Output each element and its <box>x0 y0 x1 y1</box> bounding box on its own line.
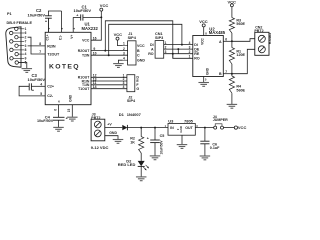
J2 net labels <box>136 76 139 91</box>
wire R1 to node B <box>231 64 233 74</box>
U1 pin 2 V+ <box>70 17 76 38</box>
LED D2 labels <box>118 158 136 167</box>
node T2IN junction <box>108 54 110 56</box>
svg-text:C1-: C1- <box>58 35 62 40</box>
ground at C5 <box>150 156 161 160</box>
connector J3 PBT2 labels <box>91 112 100 120</box>
svg-text:2: 2 <box>165 45 167 49</box>
svg-text:7805: 7805 <box>184 118 194 123</box>
U1 pin 12 R1OUT <box>78 74 97 80</box>
ground at U3 <box>177 145 188 149</box>
CN1 pin1 wire to U2 DI <box>164 41 193 45</box>
U3 IN label <box>165 125 175 130</box>
svg-text:10uF/50V: 10uF/50V <box>28 77 46 82</box>
ground at P1 pin5 <box>22 69 33 73</box>
wire U1 pin12 to J2 <box>91 74 127 78</box>
node A <box>231 40 233 42</box>
capacitor C1 <box>76 14 83 21</box>
capacitor C3 labels <box>28 73 46 82</box>
J1 pin3 <box>123 51 125 55</box>
J3 GND wire <box>105 131 118 139</box>
wire node A to CN2 pin1 <box>232 39 255 42</box>
svg-text:2: 2 <box>123 47 125 51</box>
wire R2 to D2 <box>140 153 142 161</box>
node B <box>231 73 233 75</box>
U2 pin5 GND <box>204 67 210 82</box>
connector CN1 body <box>155 41 164 59</box>
wire C5 to ground <box>154 143 156 156</box>
U1 pin 10 T2IN <box>82 51 97 57</box>
capacitor C1 labels <box>74 4 92 13</box>
U2 labels <box>209 26 226 35</box>
capacitor C3 <box>29 83 34 92</box>
CN2 RS485 label <box>268 33 272 44</box>
svg-text:3: 3 <box>189 45 191 49</box>
svg-text:9-12 VDC: 9-12 VDC <box>91 145 109 150</box>
svg-text:10uF/50V: 10uF/50V <box>74 8 92 13</box>
node RO junction <box>172 53 174 55</box>
jumper J4 <box>214 124 224 129</box>
svg-text:SIP4: SIP4 <box>127 99 136 103</box>
ground at J1 pin4 <box>113 64 124 68</box>
svg-text:IN: IN <box>170 126 174 130</box>
svg-text:A: A <box>151 47 154 51</box>
svg-text:VCC: VCC <box>114 32 123 37</box>
svg-text:+: + <box>32 88 34 92</box>
svg-text:8: 8 <box>39 42 41 46</box>
ground at U2 pin5 <box>198 83 209 87</box>
svg-text:GND: GND <box>69 94 73 102</box>
wire C3 right to U1 pin4 <box>31 85 45 87</box>
svg-text:SIP4: SIP4 <box>128 36 137 40</box>
svg-text:10uF/50V: 10uF/50V <box>37 119 54 123</box>
svg-text:C5: C5 <box>160 134 165 138</box>
svg-text:120E: 120E <box>236 53 245 57</box>
U1 pin 5 C2- label <box>40 92 54 98</box>
svg-text:9: 9 <box>93 47 95 51</box>
svg-text:3: 3 <box>165 50 167 54</box>
LED D2 <box>138 161 149 171</box>
svg-text:4: 4 <box>123 85 125 89</box>
U3 OUT label <box>185 125 198 130</box>
U1 pin 7 T2OUT label <box>39 50 60 56</box>
connector J1 body <box>128 41 136 65</box>
svg-text:C1+: C1+ <box>45 34 49 40</box>
svg-text:DB-9 FEMALE: DB-9 FEMALE <box>7 21 33 25</box>
svg-text:MAX232: MAX232 <box>82 26 99 31</box>
svg-text:1: 1 <box>189 55 191 59</box>
resistor R1 120E <box>229 41 245 64</box>
svg-text:U3: U3 <box>168 118 174 123</box>
wire U3 OUT to rail <box>195 127 213 129</box>
capacitor C4 labels <box>37 115 54 123</box>
wire to U2 RO <box>173 54 193 59</box>
wire U1 pin13 to J2 <box>91 77 127 81</box>
J3 +V wire <box>105 122 123 127</box>
power VCC above U2 <box>199 19 208 36</box>
power VCC above R3 <box>228 0 237 18</box>
ground at C4 <box>53 127 64 131</box>
svg-text:KOTEQ: KOTEQ <box>49 64 80 71</box>
U1 labels <box>82 22 99 31</box>
wire rail D1 to U3 IN <box>127 127 168 129</box>
svg-text:VCC: VCC <box>137 44 145 48</box>
connector J3 body <box>91 119 105 141</box>
connector CN1 SIP3 labels <box>155 32 163 40</box>
connector CN2 PBT2 labels <box>254 25 263 33</box>
svg-text:1K: 1K <box>130 140 135 144</box>
power VCC at J4 <box>234 125 246 130</box>
svg-text:VCC: VCC <box>201 37 205 44</box>
connector J2 labels <box>127 96 136 103</box>
node VCC junction <box>100 16 102 18</box>
wire U1 pin11 to J2 <box>91 81 127 85</box>
J1 pin1 <box>123 42 128 46</box>
U2 pin B <box>219 70 232 76</box>
svg-text:GND: GND <box>109 131 117 135</box>
CN1 pin3 wire to U2 RE <box>164 50 193 54</box>
U2 pin A <box>219 38 232 44</box>
node DE junction <box>177 48 179 50</box>
svg-text:4: 4 <box>189 41 191 45</box>
U1 pin 9 R2OUT <box>78 47 96 53</box>
capacitor C5 <box>147 128 165 155</box>
J1 pin2 <box>123 47 125 51</box>
ground at U1 pin15 <box>67 117 78 121</box>
svg-text:+: + <box>147 136 149 140</box>
svg-text:B: B <box>137 49 140 53</box>
wire U1 pin14 to J2 <box>91 85 127 89</box>
svg-text:0.1uF: 0.1uF <box>210 146 220 150</box>
J1 pin4 <box>123 56 128 60</box>
U1 pin 15 GND <box>67 94 72 117</box>
wire R4 to ground <box>231 93 233 104</box>
svg-text:10uF/50V: 10uF/50V <box>28 12 46 17</box>
wire C6 to ground <box>204 144 206 156</box>
power VCC above J1 <box>114 32 123 40</box>
svg-text:VCC: VCC <box>238 125 247 130</box>
svg-text:RO: RO <box>194 57 200 61</box>
svg-text:RS485: RS485 <box>268 33 272 44</box>
svg-text:RE: RE <box>194 52 200 56</box>
wire node B to CN2 pin2 <box>232 49 255 73</box>
U1 pin 6 V- <box>54 100 61 118</box>
svg-text:1: 1 <box>123 42 125 46</box>
wire U1 pin10 to J1 pin3 <box>91 54 128 56</box>
U2 left pin labels <box>189 41 200 61</box>
diode D1 <box>122 125 127 130</box>
U1 pin 14 T1OUT <box>78 85 97 91</box>
svg-text:C2-: C2- <box>47 94 54 98</box>
ground at R4 <box>227 104 238 108</box>
ground at J3 <box>113 140 124 144</box>
wire DE-RE tie <box>177 49 179 54</box>
svg-text:560E: 560E <box>236 88 245 92</box>
svg-text:OUT: OUT <box>185 126 193 130</box>
svg-text:14: 14 <box>93 85 97 89</box>
wire VCC to U1 pin16 <box>91 17 101 40</box>
U3 GND label <box>177 126 183 132</box>
U1 watermark KOTEQ <box>49 64 80 71</box>
svg-text:VCC: VCC <box>228 0 237 4</box>
op-amp U1 MAX232 body <box>45 32 91 104</box>
svg-text:T2IN: T2IN <box>82 54 90 58</box>
svg-text:2: 2 <box>189 50 191 54</box>
CN1 pin2 wire to U2 DE <box>164 45 193 49</box>
wire D2 to ground <box>140 166 142 176</box>
U1 pin 1 C1+ <box>45 18 51 40</box>
U1 pin 16 VCC <box>82 36 97 42</box>
wire J1 pin4 to ground <box>118 60 122 63</box>
wire VCC to J1 pin1 <box>118 40 123 46</box>
svg-text:VCC: VCC <box>100 3 109 8</box>
capacitor C6 <box>200 128 220 150</box>
svg-text:SIP3: SIP3 <box>155 36 163 40</box>
svg-text:R2IN: R2IN <box>47 44 56 48</box>
svg-text:VCC: VCC <box>82 39 90 43</box>
wire C2 bottom to U1 pin1 <box>47 18 49 32</box>
wire DB9 pin2 to U1 T2OUT <box>28 37 46 54</box>
svg-text:C2+: C2+ <box>47 85 54 89</box>
svg-text:+V: +V <box>107 122 112 126</box>
resistor R3 560E <box>229 18 245 33</box>
svg-text:15: 15 <box>67 109 71 113</box>
wire C3 left loop to U1 pin5 <box>19 86 45 96</box>
capacitor C2 <box>45 16 52 24</box>
svg-text:VCC: VCC <box>199 19 208 24</box>
wire C1 left to U1 pin2 V+ <box>73 16 81 18</box>
wire U1 T2IN loop to U2 DI <box>109 24 182 55</box>
svg-text:4: 4 <box>123 56 125 60</box>
ground at D2 <box>136 177 147 181</box>
connector P1 pins 1-9 <box>10 27 27 65</box>
svg-text:10uF/50V: 10uF/50V <box>159 140 163 155</box>
svg-text:P1: P1 <box>7 12 12 16</box>
resistor R2 1K <box>130 128 144 153</box>
svg-text:+: + <box>66 117 68 121</box>
diode D1 1N4007 labels <box>119 112 142 117</box>
node R2OUT junction <box>104 50 106 52</box>
connector J2 body <box>127 75 135 92</box>
wire R3 to node A <box>231 33 233 41</box>
node rail C5 tap <box>154 127 156 129</box>
svg-text:JUMPER: JUMPER <box>213 118 228 122</box>
node rail R2 tap <box>140 127 142 129</box>
connector P1 DB-9 FEMALE labels <box>7 12 33 25</box>
wire C2 top to U1 pin3 <box>48 11 61 16</box>
svg-text:DI: DI <box>150 43 154 47</box>
svg-text:16: 16 <box>93 36 97 40</box>
svg-text:6: 6 <box>54 109 58 111</box>
power VCC above U1 pin16 <box>100 3 109 17</box>
svg-text:3: 3 <box>123 51 125 55</box>
CN1 net labels <box>148 43 154 56</box>
ground at C6 <box>200 156 211 160</box>
U1 pin 8 R2IN label <box>39 42 56 48</box>
svg-text:1N4007: 1N4007 <box>127 112 142 117</box>
J1 net labels <box>137 44 145 63</box>
svg-text:RO: RO <box>148 52 154 56</box>
svg-text:T1OUT: T1OUT <box>78 87 90 91</box>
svg-text:7: 7 <box>39 50 41 54</box>
U2 pin8 VCC <box>201 31 208 45</box>
resistor R4 560E <box>229 74 245 93</box>
wire C1 right to VCC node <box>83 16 102 18</box>
U1 pin 4 C2+ label <box>40 83 54 89</box>
capacitor C4 <box>53 117 68 121</box>
wire J4 to VCC <box>224 127 235 129</box>
jumper J4 labels <box>213 115 228 122</box>
node DI junction <box>181 44 183 46</box>
U1 pin 3 C1- <box>58 11 64 40</box>
connector CN2 body <box>255 32 269 55</box>
regulator U3 7805 labels <box>168 118 193 123</box>
svg-text:RED LED: RED LED <box>118 162 136 167</box>
connector J1 SIP4 labels <box>128 32 137 40</box>
svg-text:GND: GND <box>137 59 145 63</box>
wire U3 GND to ground <box>181 135 183 144</box>
U1 pin 13 R1IN <box>82 77 97 83</box>
svg-text:A: A <box>219 40 222 44</box>
svg-text:DE: DE <box>194 47 200 51</box>
svg-text:T2OUT: T2OUT <box>47 53 60 57</box>
svg-text:560E: 560E <box>236 22 245 26</box>
regulator U3 body <box>168 124 195 136</box>
svg-text:C: C <box>137 54 140 58</box>
op-amp U2 MAX485 body <box>193 36 224 77</box>
svg-text:GND: GND <box>205 67 209 75</box>
wire C4 to ground <box>58 120 60 127</box>
wire DB9 pin3 to U1 R2IN <box>28 45 46 47</box>
svg-text:+: + <box>76 14 78 18</box>
svg-text:10: 10 <box>93 51 97 55</box>
svg-text:MAX485: MAX485 <box>209 30 226 35</box>
svg-text:R2OUT: R2OUT <box>78 49 90 53</box>
J3 voltage label <box>91 145 109 150</box>
svg-text:B: B <box>219 72 222 76</box>
svg-text:DI: DI <box>194 43 198 47</box>
svg-text:V+: V+ <box>70 35 74 39</box>
svg-text:G: G <box>136 87 139 91</box>
node rail C6 tap <box>204 127 206 129</box>
U1 pin 11 T1IN <box>82 81 97 87</box>
capacitor C2 labels <box>28 8 46 17</box>
wire U1 pin9 to J1 pin2 <box>91 50 128 52</box>
connector P1 shell <box>6 27 21 67</box>
wire U1 R2OUT loop to CN1 area <box>105 21 173 59</box>
svg-text:1: 1 <box>165 41 167 45</box>
wire DB9 pin5 to ground <box>18 63 26 69</box>
svg-text:D1: D1 <box>119 112 125 117</box>
